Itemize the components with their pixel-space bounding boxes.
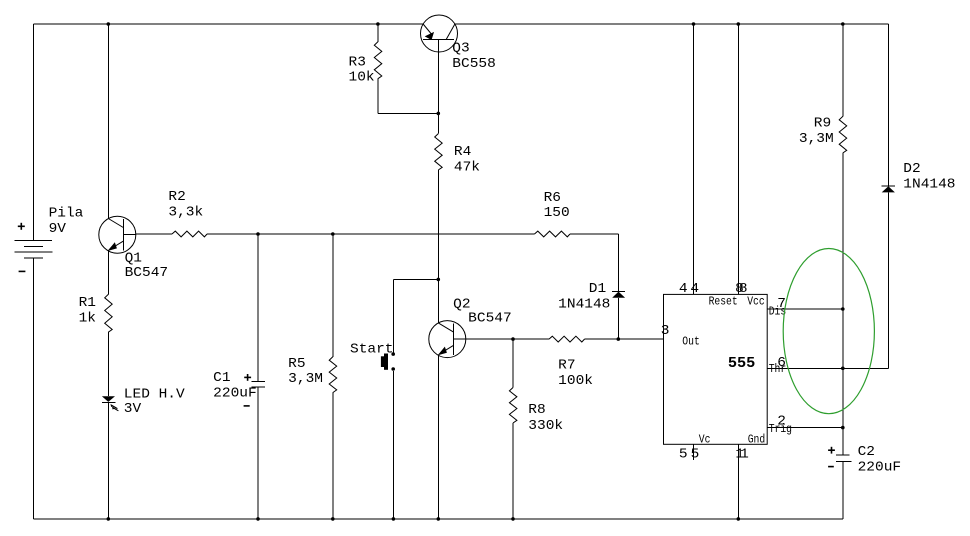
pin number 4 labels [679, 282, 699, 297]
svg-text:R4: R4 [454, 145, 471, 160]
wire node to R8 [512, 339, 514, 387]
wire LED to bottom rail [107, 403, 109, 519]
wire rail to C1 [257, 234, 259, 382]
node rail / R5 [331, 232, 335, 236]
svg-text:3: 3 [661, 324, 670, 339]
svg-text:Thr: Thr [769, 362, 787, 376]
transistor Q1 [99, 216, 136, 253]
node bottom rail / 555 pin 1 [737, 517, 741, 521]
svg-text:Out: Out [682, 334, 700, 348]
svg-text:47k: 47k [454, 161, 480, 176]
svg-text:R9: R9 [814, 117, 831, 132]
C2 + sign [828, 447, 835, 454]
svg-text:R7: R7 [558, 358, 575, 373]
wire Q1 collector from top rail [107, 24, 109, 219]
node pin7 / R9-C2 line [841, 307, 845, 311]
pin number 8 labels [735, 282, 747, 297]
highlight ellipse around 555 timing pins [783, 249, 874, 414]
node bottom rail / Start [392, 517, 396, 521]
svg-text:3V: 3V [124, 402, 142, 417]
pin number 5 labels [679, 447, 699, 462]
wire top rail to D2 [887, 24, 889, 186]
svg-text:D1: D1 [589, 282, 606, 297]
resistor R7 [549, 336, 585, 342]
capacitor C2 [836, 455, 851, 461]
pin 4 wire (Reset) from top rail [693, 24, 695, 294]
wire R7 to 555 pin 3 [585, 338, 664, 340]
pin 1 wire (Gnd) to bottom rail [737, 444, 739, 519]
svg-text:220uF: 220uF [213, 386, 257, 401]
battery + terminal sign [18, 223, 25, 230]
node pin2 / R9-C2 line [841, 426, 845, 430]
C1 - sign [244, 405, 250, 407]
wire top rail to R9 [842, 24, 844, 116]
wire R2 to R6 [207, 233, 534, 235]
svg-text:R3: R3 [349, 55, 366, 70]
C1 + sign [244, 374, 251, 381]
resistor R8 [509, 388, 517, 424]
svg-text:4: 4 [679, 282, 688, 297]
node pin6 / R9-C2 line [841, 367, 845, 371]
svg-text:8: 8 [739, 282, 748, 297]
svg-text:Pila: Pila [49, 207, 84, 222]
wire top rail left segment [33, 23, 423, 25]
pin 7 wire (Dis) [767, 308, 843, 310]
wire R4 to Q2 collector [437, 170, 439, 323]
wire battery - to bottom rail [32, 258, 34, 519]
svg-text:9V: 9V [49, 222, 67, 237]
capacitor C1 [252, 382, 266, 388]
node R7 / D1 [617, 337, 621, 341]
svg-text:BC547: BC547 [468, 311, 512, 326]
resistor R1 [105, 294, 113, 332]
svg-text:D2: D2 [903, 162, 920, 177]
wire Q2 base to R7 [466, 338, 549, 340]
wire R8 to bottom rail [512, 423, 514, 519]
pin number 1 labels [735, 447, 748, 462]
wire bottom rail [33, 518, 842, 520]
LED H.V [102, 396, 119, 411]
resistor R6 [535, 231, 571, 237]
wire R6 to D1 corner [570, 234, 618, 291]
pin 8 wire (Vcc) from top rail [737, 24, 739, 294]
C2 - sign [828, 466, 834, 468]
resistor R3 [374, 42, 382, 79]
node top rail / Q1 collector [107, 22, 111, 26]
svg-text:150: 150 [544, 206, 570, 221]
node bottom rail / Q2 emitter [437, 517, 441, 521]
svg-text:10k: 10k [349, 70, 375, 85]
resistor R9 [839, 116, 847, 153]
wire D2 to pin6 line [887, 192, 889, 368]
wire down to Start switch [392, 279, 394, 352]
svg-text:R8: R8 [528, 403, 545, 418]
svg-text:555: 555 [728, 354, 755, 372]
wire Q1 base to R2 [136, 233, 172, 235]
svg-text:R1: R1 [79, 296, 96, 311]
node bottom rail / R8 [511, 517, 515, 521]
wire Q2 collector tap to Start [393, 278, 438, 280]
wire R3 to Q3 base node [378, 79, 438, 114]
diode D2 1N4148 [882, 186, 895, 192]
node R3 / Q3 base / R4 [437, 112, 441, 116]
svg-text:BC547: BC547 [125, 266, 169, 281]
wire R9 to C2 through pin nodes [842, 153, 844, 455]
svg-text:1N4148: 1N4148 [903, 177, 955, 192]
wire top rail to R3 [377, 24, 379, 42]
transistor Q3 [421, 15, 458, 113]
wire node to R4 [437, 113, 439, 133]
svg-text:R6: R6 [544, 191, 561, 206]
svg-text:1k: 1k [79, 311, 96, 326]
wire C2 to bottom rail [842, 461, 844, 519]
svg-text:220uF: 220uF [858, 461, 902, 476]
pin 5 stub (Vc) [693, 444, 695, 460]
svg-text:4: 4 [690, 282, 699, 297]
svg-text:100k: 100k [558, 374, 593, 389]
svg-text:BC558: BC558 [452, 57, 496, 72]
svg-text:C1: C1 [213, 371, 230, 386]
pin 2 wire (Trig) [767, 427, 843, 429]
node bottom rail / LED [107, 517, 111, 521]
node top rail / R9 [841, 22, 845, 26]
node rail / C1 [256, 232, 260, 236]
svg-text:R5: R5 [288, 357, 305, 372]
node top rail / R3 [376, 22, 380, 26]
svg-text:330k: 330k [528, 419, 563, 434]
wire R5 to bottom rail [332, 393, 334, 519]
svg-text:Q3: Q3 [452, 42, 469, 57]
node bottom rail / C1 [256, 517, 260, 521]
resistor R4 [435, 134, 443, 170]
node tap / R4-Q2 line [437, 278, 441, 282]
svg-text:5: 5 [691, 447, 700, 462]
svg-text:1: 1 [740, 447, 749, 462]
wire top rail right segment [455, 23, 889, 25]
node bottom rail / R5 [331, 517, 335, 521]
svg-text:Vcc: Vcc [747, 295, 765, 309]
wire C1 to bottom rail [257, 387, 259, 519]
wire Q1 emitter to R1 [107, 251, 109, 295]
svg-text:Vc: Vc [699, 432, 711, 446]
svg-text:Reset: Reset [709, 295, 738, 309]
wire node to D1 [617, 298, 619, 339]
node top rail / 555 pin 4 [692, 22, 696, 26]
pin 6 wire (Thr) [767, 367, 888, 369]
transistor Q2 [429, 321, 466, 358]
wire left edge to battery + [32, 24, 34, 240]
svg-text:Start: Start [350, 342, 394, 357]
svg-text:LED H.V: LED H.V [124, 388, 186, 403]
svg-text:R2: R2 [168, 190, 185, 205]
node top rail / 555 pin 8 [737, 22, 741, 26]
resistor R5 [329, 357, 337, 393]
wire Start to bottom rail [392, 371, 394, 519]
svg-text:Gnd: Gnd [748, 432, 766, 446]
diode D1 1N4148 [612, 291, 625, 297]
svg-text:3,3M: 3,3M [288, 372, 323, 387]
battery Pila 9V [15, 240, 53, 258]
svg-text:3,3k: 3,3k [168, 206, 203, 221]
node base rail / R8 [511, 337, 515, 341]
op-amp-style IC U1 555 box [664, 294, 768, 444]
svg-text:5: 5 [679, 447, 688, 462]
battery - terminal sign [19, 270, 26, 272]
wire rail to R5 [332, 234, 334, 357]
svg-text:Trig: Trig [769, 422, 792, 436]
svg-text:Q1: Q1 [125, 251, 142, 266]
resistor R2 [172, 231, 207, 237]
wire R1 to LED [107, 332, 109, 396]
svg-text:1N4148: 1N4148 [558, 297, 610, 312]
svg-text:3,3M: 3,3M [799, 132, 834, 147]
wire Q2 emitter to bottom rail [437, 355, 439, 519]
pushbutton Start [381, 352, 395, 371]
svg-text:C2: C2 [858, 445, 875, 460]
